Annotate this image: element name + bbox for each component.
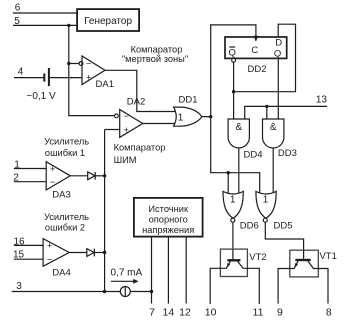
svg-text:напряжения: напряжения [142,225,194,235]
junction DD1 output node [209,115,212,118]
op-amp DA4 error amplifier 2 [43,239,71,279]
pin 5 [13,16,77,27]
svg-text:DA1: DA1 [96,79,114,90]
nor-gate DD6 [223,191,259,231]
junction DD6 left input [227,171,230,174]
svg-text:+: + [124,125,129,135]
svg-text:11: 11 [253,307,264,319]
svg-text:DD6: DD6 [240,221,259,232]
wire DA4 output [69,252,87,254]
svg-text:"мертвой зоны": "мертвой зоны" [122,54,188,64]
wire DD1 node up to DD2 clock C with arrow [211,25,256,117]
wire feedback Q-bar to D input [234,24,296,92]
svg-text:Генератор: Генератор [84,16,132,27]
battery 0.1V offset [44,68,49,86]
wire DD1 output [202,116,211,118]
diode VD1 [88,172,105,180]
svg-text:6: 6 [15,3,21,14]
svg-text:1: 1 [263,195,269,206]
svg-text:~0,1 V: ~0,1 V [27,91,57,102]
svg-text:−: − [124,111,129,121]
svg-text:Компаратор: Компаратор [131,44,183,54]
wire DD1 node down to output NOR gates [211,117,260,193]
svg-text:+: + [86,73,91,83]
wire DD6 output to VT2 base [232,222,234,259]
wire to DD6 left input [227,173,229,193]
nor-gate DD5 [256,191,293,231]
junction on pin7 line [150,290,153,293]
wire DA2 output to DD1 lower input [143,123,177,125]
svg-text:DA2: DA2 [127,97,145,108]
op-amp DA2 PWM comparator [115,97,146,138]
arrowhead into C [254,36,258,42]
diode VD2 [87,249,105,257]
and-gate DD4 [228,119,262,160]
pin 12 wire [185,237,187,304]
svg-text:Усилитель: Усилитель [44,137,89,147]
pin 16 [13,237,43,248]
svg-text:−: − [86,59,91,69]
bubble DD6 output [231,218,235,222]
svg-text:14: 14 [163,307,175,319]
svg-text:DA3: DA3 [52,190,70,201]
svg-text:Компаратор: Компаратор [114,142,166,152]
transistor VT1 [278,250,337,303]
transistor VT2 [210,249,267,304]
wire to DD3 left input [266,106,268,119]
svg-text:DD1: DD1 [178,94,197,105]
op-amp DA3 error amplifier 1 [46,162,71,201]
svg-text:7: 7 [149,307,155,319]
svg-text:ошибки 2: ошибки 2 [45,223,85,233]
wire DD5 output to VT1 base [265,222,303,259]
svg-text:−: − [47,254,52,264]
svg-text:Q: Q [229,47,236,58]
reference source box [134,198,203,237]
svg-text:DA4: DA4 [52,267,70,278]
svg-text:VT1: VT1 [319,251,336,262]
flip-flop DD2 [225,37,287,75]
svg-text:−: − [50,177,55,187]
pin 3 [12,281,121,292]
wire DA1 output to DD1 upper input [105,70,176,111]
junction pin5/sawtooth [67,24,70,27]
pin 6 [13,3,77,14]
svg-text:&: & [270,122,277,133]
svg-text:13: 13 [316,95,328,106]
svg-text:D: D [275,38,282,49]
wire DD4 output to DD6 [238,148,240,193]
label error amp 1 [44,137,89,159]
svg-text:Источник: Источник [148,204,189,214]
wire DD3 output to DD5 [272,148,274,193]
pin 7 wire [151,237,153,304]
svg-text:+: + [47,241,52,251]
wire sawtooth vertical to DA1/DA2 inverting inputs [69,25,115,115]
pin 4 [14,66,43,77]
wire Q-bar down to DD4 [233,62,235,119]
svg-text:3: 3 [16,281,22,292]
or-gate DD1 [174,94,202,126]
svg-text:ошибки 1: ошибки 1 [45,148,85,158]
svg-text:ШИМ: ШИМ [114,155,137,165]
label error amp 2 [44,212,89,232]
bubble DD5 output [263,218,267,222]
junction pin13 / DD3 input [265,105,268,108]
wire DA2 plus input from error node [105,129,120,131]
and-gate DD3 [263,119,297,159]
junction diode1 to error node [103,174,106,177]
current source 0.7mA [111,267,143,296]
svg-text:1: 1 [230,195,236,206]
svg-text:0,7 mA: 0,7 mA [111,267,143,278]
label comparator dead zone [122,44,188,64]
pin 1 [14,159,46,170]
wire Q output down to DD3 [277,58,279,119]
svg-text:12: 12 [179,307,191,319]
svg-text:DD3: DD3 [278,148,297,159]
junction sawtooth to DA1 [67,62,70,65]
label comparator PWM [114,142,166,165]
wire sawtooth to DA1 minus [69,63,79,65]
svg-text:+: + [50,164,55,174]
inverted output bubble of DD2 [232,58,236,62]
svg-text:C: C [251,45,258,56]
svg-text:Q: Q [274,48,281,59]
wire current source to pin7 line [130,291,151,293]
svg-text:10: 10 [205,307,217,319]
svg-text:DD4: DD4 [243,149,262,160]
junction Q-bar node [232,90,235,93]
pin 15 [13,249,43,260]
svg-text:8: 8 [326,307,332,319]
pin 2 [13,172,46,183]
svg-text:9: 9 [277,307,283,319]
wire DA3 output [70,175,88,177]
svg-text:DD2: DD2 [247,64,266,75]
svg-text:Усилитель: Усилитель [44,212,89,222]
svg-text:4: 4 [18,66,24,77]
svg-text:опорного: опорного [149,214,188,224]
svg-text:&: & [235,122,242,133]
svg-text:1: 1 [178,113,184,124]
svg-text:VT2: VT2 [249,252,266,263]
svg-text:DD5: DD5 [273,221,292,232]
op-amp DA1 dead-zone comparator [79,56,114,90]
junction diode2 to error node [103,251,106,254]
pin 13 [245,95,328,120]
junction pin3 / error node [103,290,106,293]
pin 14 wire [167,237,169,304]
wire error node vertical [104,130,106,292]
generator box G1 [77,9,139,31]
wire battery to DA1 plus [50,77,82,79]
